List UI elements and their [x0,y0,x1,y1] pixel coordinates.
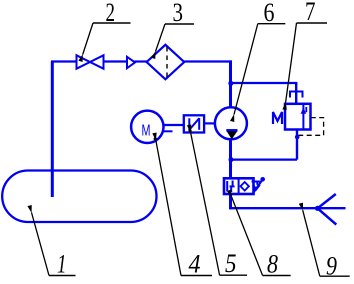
wire up into relief valve bottom [296,130,298,160]
svg-text:M: M [142,123,151,140]
relief valve V (square body) [285,104,311,130]
filter F (diamond) [147,45,185,80]
wire arrow to filter [135,60,148,62]
wire valve 8 bottom to floor line [229,194,232,209]
wire branch to relief valve top [231,82,298,84]
svg-text:1: 1 [57,250,67,279]
tank T (reservoir) [2,171,156,223]
svg-text:8: 8 [267,250,278,279]
node junction top branch [228,81,233,86]
relief valve bracket cap [290,92,303,98]
wire bottom branch to relief valve bottom [231,158,298,160]
coupling K (box with bars and diagonal) [184,115,204,132]
valve 8 lever actuator [252,180,263,193]
wire pump bottom down [229,139,232,179]
relief valve spring (M zigzag) [273,112,282,124]
wire bottom pipe to nozzle [229,207,345,209]
wire filter to corner [184,60,232,62]
filter element dashed line [166,47,168,78]
wire suction pipe into tank [51,62,54,198]
pump P (circle, flow triangle) [215,107,247,139]
pilot dashed line [299,118,324,136]
motor M (electric motor) [131,111,163,143]
valve 8 (2-position lever valve) body [224,178,254,194]
relief valve inner divider and arrow [302,104,304,130]
svg-text:6: 6 [264,0,275,27]
node pilot junction [295,135,300,140]
svg-text:4: 4 [189,250,201,279]
valve 2 (shut-off bowtie) [77,55,104,68]
svg-text:7: 7 [305,0,316,26]
wire pump left shaft to coupling [204,122,215,124]
valve 8 right cell diamond [241,182,249,191]
wire motor shaft lines [163,124,184,126]
wire down into relief valve [295,83,297,104]
node junction bottom branch [229,157,234,162]
wire top pipe left segment [51,60,77,62]
valve 8 left cell blocked marks [226,181,228,192]
check/flow arrow [127,57,135,68]
wire corner down to pump [229,60,232,107]
svg-text:3: 3 [173,0,184,27]
wire valve2 to check arrow [104,60,128,62]
nozzle 9 (arrow fitting) [315,206,320,211]
svg-text:5: 5 [225,249,237,278]
